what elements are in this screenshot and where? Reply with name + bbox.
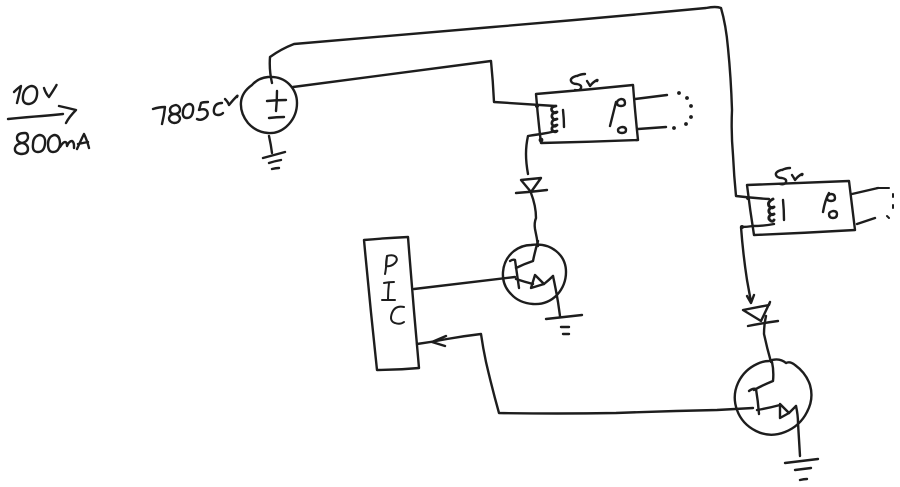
label 5V relay K2 (776, 168, 803, 184)
wire K2 contact top out (852, 188, 878, 194)
regulator U1 plus sign (267, 91, 286, 111)
wire PIC to Q1 base (414, 277, 515, 289)
wire K2 contact bottom out (857, 218, 875, 224)
relay K2 box (747, 181, 855, 235)
ground Q2 (785, 459, 818, 480)
relay K1 coil (552, 106, 565, 132)
junction blob K1 exit wire crosses box bottom edge (539, 138, 544, 143)
wire Q2 emitter to ground (796, 406, 800, 456)
ground Q1 (546, 315, 582, 334)
relay K2 coil (769, 199, 785, 221)
junction blob wireB crosses K1 box edge (535, 104, 539, 108)
wire regulator ground lead (269, 136, 272, 153)
label C (391, 307, 404, 324)
regulator U1 minus sign (269, 117, 284, 118)
transistor Q2 body (735, 359, 812, 434)
wire Q1 emitter to ground (553, 276, 560, 316)
wire K1 coil to diode D1 (526, 131, 556, 174)
label 5V relay K1 (571, 74, 598, 90)
transistor Q1 body (503, 245, 566, 304)
transistor Q1 symbol (510, 241, 553, 288)
regulator U1 7805CV body (241, 77, 297, 133)
wire K1 contact top out (635, 95, 667, 99)
relay K1 contacts (610, 99, 626, 133)
ground regulator (263, 152, 285, 169)
relay K2 contacts (823, 193, 837, 218)
dotted continuation K2 (877, 188, 893, 218)
wire +5V to relay K1 coil (293, 61, 555, 106)
label 800mA (15, 133, 89, 154)
PIC box U2 (364, 237, 419, 370)
wire K2 coil to diode D2 (741, 224, 774, 303)
wire K1 contact bottom out (638, 127, 666, 129)
dotted continuation K1 (672, 91, 693, 130)
label 7805CV (153, 96, 238, 124)
diode D2 (743, 302, 778, 326)
label I (382, 282, 395, 300)
wire D2 to Q2 collector (764, 316, 771, 362)
wire +5V top rail from regulator to relay K2 coil (270, 7, 769, 199)
diode D1 (516, 178, 547, 193)
relay K1 box (536, 85, 638, 143)
junction blob wireA crosses K2 box edge (746, 196, 750, 200)
arrow supply direction (8, 106, 76, 123)
label 10V (14, 85, 57, 104)
wire PIC to Q2 base with arrowhead (417, 334, 753, 414)
wire D1 to Q1 collector (531, 193, 538, 246)
junction blob K2 coil return corner (740, 225, 744, 229)
transistor Q2 symbol (749, 362, 796, 418)
label P (385, 255, 397, 274)
